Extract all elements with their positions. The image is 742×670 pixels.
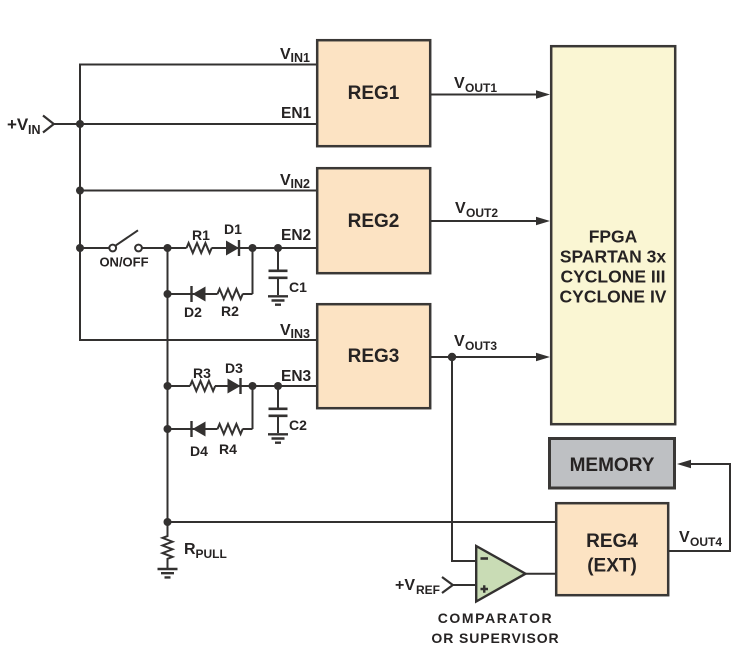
resistor R4 [218,424,243,434]
svg-text:COMPARATOR: COMPARATOR [438,610,554,626]
svg-text:IN1: IN1 [291,51,311,65]
diode D2 [190,286,192,302]
junction dot node A (after switch) [164,244,172,252]
resistor R1 [187,243,212,253]
FPGA block [551,46,675,424]
svg-text:V: V [454,75,465,92]
svg-text:CYCLONE IV: CYCLONE IV [560,287,667,307]
svg-text:IN2: IN2 [291,177,311,191]
wire: main input bus [79,64,81,342]
ground below C2 [268,434,288,442]
svg-text:OUT2: OUT2 [466,206,498,220]
svg-text:C2: C2 [289,417,307,433]
svg-text:V: V [679,529,690,546]
svg-text:SPARTAN 3x: SPARTAN 3x [560,247,667,267]
svg-text:D3: D3 [225,360,243,376]
junction dot bus/VIN2 [76,187,84,195]
wire: long row to REG4 [168,521,556,523]
svg-text:C1: C1 [289,279,307,295]
switch ON/OFF circle 1 [109,245,116,252]
node +VREF input chevron [442,577,453,593]
regulator REG1 [317,40,430,146]
svg-text:R2: R2 [221,303,239,319]
resistor RPULL [163,522,173,568]
svg-text:OUT4: OUT4 [690,535,722,549]
switch ON/OFF circle 2 [135,245,142,252]
junction dot VOUT3 [448,353,456,361]
svg-text:CYCLONE III: CYCLONE III [560,267,665,287]
junction dot D3 cathode [249,382,257,390]
svg-text:V: V [454,333,465,350]
wire: VOUT2 [431,220,538,222]
wire: comparator output [525,573,556,575]
svg-text:REG2: REG2 [348,211,400,232]
junction dot RPULL node [164,518,172,526]
wire: branch riser [252,248,254,294]
MEMORY block [550,439,675,489]
ground below C1 [268,296,288,304]
svg-text:+V: +V [395,577,415,594]
wire: D2 branch [168,293,218,295]
svg-text:REF: REF [416,583,440,597]
wire: VOUT4 loop to MEMORY [669,464,730,551]
wire: vertical chain to RPULL node [167,248,169,522]
svg-text:D2: D2 [184,304,202,320]
wire: VIN3 row [80,339,317,341]
wire: +VIN / EN1 row [54,123,317,125]
wire: branch riser 2 [252,386,254,429]
svg-text:ON/OFF: ON/OFF [99,255,148,270]
svg-text:PULL: PULL [196,547,227,561]
svg-text:OUT1: OUT1 [465,81,497,95]
svg-text:R4: R4 [219,441,237,457]
regulator REG2 [317,168,430,273]
wire: VOUT3 [431,356,538,358]
capacitor C2 [277,386,279,408]
regulator REG4 (EXT) [556,503,668,595]
diode D3 [228,379,241,394]
ground below RPULL [158,569,178,577]
junction dot R3 row [164,382,172,390]
junction dot D4 branch [164,425,172,433]
svg-text:EN3: EN3 [281,368,312,385]
junction dot bus/switch row [76,244,84,252]
wire: VIN1 row [79,64,317,66]
svg-text:V: V [280,322,291,339]
svg-text:EN2: EN2 [281,227,311,244]
resistor R2 [218,289,243,299]
svg-text:REG4: REG4 [586,531,638,552]
svg-text:MEMORY: MEMORY [570,455,655,476]
wire: VOUT1 [431,94,538,96]
svg-text:V: V [280,46,291,63]
node +VIN input chevron [43,116,54,133]
wire: R1 to EN2 pin [212,247,317,249]
junction dot D1 cathode [249,244,257,252]
svg-text:+V: +V [7,115,29,134]
wire: bus to switch [80,247,110,249]
svg-text:FPGA: FPGA [589,227,638,247]
capacitor C1 [277,248,279,270]
diode D4 [190,421,192,437]
svg-text:IN: IN [28,123,41,137]
wire: VIN2 row [80,190,317,192]
junction dot bus/EN1 [76,120,84,128]
wire: D4 branch [168,428,218,430]
switch lever [116,230,138,245]
junction dot C1 tap [274,244,282,252]
svg-text:V: V [455,200,466,217]
junction dot C2 tap [274,382,282,390]
svg-text:D4: D4 [190,443,208,459]
svg-text:R1: R1 [192,227,210,243]
diode D1 [226,241,239,256]
wire: R2 to riser [243,293,253,295]
regulator REG3 [317,304,430,408]
svg-text:IN3: IN3 [291,327,311,341]
svg-text:REG1: REG1 [348,83,400,104]
svg-text:EN1: EN1 [281,105,312,122]
wire: R3 to EN3 pin [215,385,317,387]
svg-text:D1: D1 [224,221,242,237]
wire: VREF to comparator plus [453,584,476,586]
svg-text:R3: R3 [193,365,211,381]
junction dot D2 branch [164,290,172,298]
svg-text:R: R [184,541,196,558]
comparator U1 [476,546,525,602]
svg-text:OR SUPERVISOR: OR SUPERVISOR [431,630,559,646]
wire: node to R3 [168,385,191,387]
wire: switch to R1 [142,247,187,249]
resistor R3 [190,381,215,391]
wire: VOUT3 to comparator minus [452,357,476,561]
svg-text:V: V [280,172,291,189]
svg-text:OUT3: OUT3 [465,339,497,353]
svg-text:REG3: REG3 [348,346,400,367]
svg-text:(EXT): (EXT) [587,556,637,577]
wire: R4 to riser [243,428,253,430]
